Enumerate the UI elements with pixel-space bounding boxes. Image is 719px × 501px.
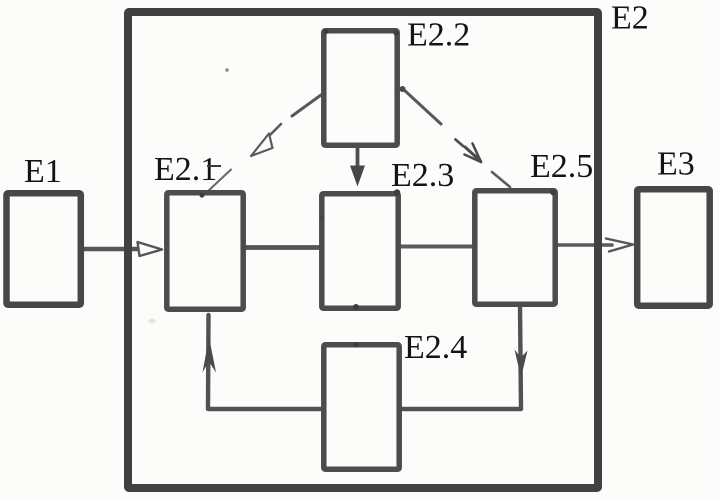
- label E3: [657, 146, 695, 183]
- outer block E2: [128, 12, 598, 488]
- label E2.1: [154, 151, 217, 188]
- block E1: [7, 193, 81, 305]
- smudge: [148, 319, 156, 324]
- feedback wire E2.5 down to bottom rail: [402, 307, 521, 409]
- arrowhead toward E2.5: [400, 86, 482, 162]
- block E3: [637, 189, 710, 306]
- tick after label E2.1: [207, 165, 221, 167]
- feedback wire bottom rail to E2.1: [208, 315, 321, 409]
- arrowhead into E3: [606, 239, 633, 252]
- dashed arrow E2.2 to E2.1, segment 3: [207, 170, 232, 193]
- label E2.4: [404, 329, 467, 366]
- wire E1 to E2.1: [84, 247, 141, 252]
- block E2.1: [167, 193, 243, 309]
- label E2.2: [407, 17, 470, 54]
- arrowhead into E2.1: [138, 242, 163, 256]
- arrowhead up into E2.1: [203, 337, 217, 373]
- dashed arrow E2.2 to E2.1, segment 2: [268, 124, 281, 137]
- svg-text:E2.3: E2.3: [391, 157, 454, 194]
- arrowhead into E2.3: [350, 166, 365, 187]
- wire E2.5 to E3: [557, 243, 612, 247]
- svg-text:E3: E3: [657, 146, 695, 183]
- svg-text:E1: E1: [24, 153, 62, 190]
- wire E2.3 to E2.5: [400, 245, 473, 249]
- junction dot on E2.4 top edge: [353, 342, 358, 347]
- label E2.5: [530, 148, 593, 185]
- svg-text:E2.2: E2.2: [407, 17, 470, 54]
- svg-text:E2.1: E2.1: [154, 151, 217, 188]
- label E1: [24, 153, 62, 190]
- dashed arrow E2.2 to E2.1, segment 1: [292, 95, 321, 116]
- label E2: [611, 0, 649, 37]
- block E2.3: [322, 194, 398, 308]
- dashed arrow E2.2 to E2.5, segment 2: [492, 172, 510, 187]
- dashed arrow E2.2 to E2.5, segment 1: [403, 89, 441, 124]
- arrowhead down on E2.5 feedback: [515, 350, 528, 378]
- junction dot on E2.3 left edge: [319, 215, 324, 220]
- label E2.3: [391, 157, 454, 194]
- junction dot on E2.5 top right corner: [550, 190, 556, 196]
- junction dot on E2.2 top left corner: [323, 29, 328, 34]
- block E2.2: [324, 31, 397, 145]
- svg-text:E2.5: E2.5: [530, 148, 593, 185]
- junction dot on E2.2 top right corner: [393, 30, 398, 35]
- junction dot on E2.3 top right corner: [394, 189, 400, 195]
- wire E2.2 to E2.3: [356, 147, 360, 170]
- block E2.5: [475, 191, 555, 304]
- speck: [225, 68, 229, 72]
- svg-text:E2.4: E2.4: [404, 329, 467, 366]
- block E2.4: [324, 345, 399, 469]
- junction dot on E2.1 top edge: [199, 192, 204, 197]
- wire E2.1 to E2.3: [245, 245, 320, 250]
- open arrowhead toward E2.1: [251, 134, 273, 157]
- svg-text:E2: E2: [611, 0, 649, 37]
- junction dot on E2.3 bottom edge: [353, 304, 359, 310]
